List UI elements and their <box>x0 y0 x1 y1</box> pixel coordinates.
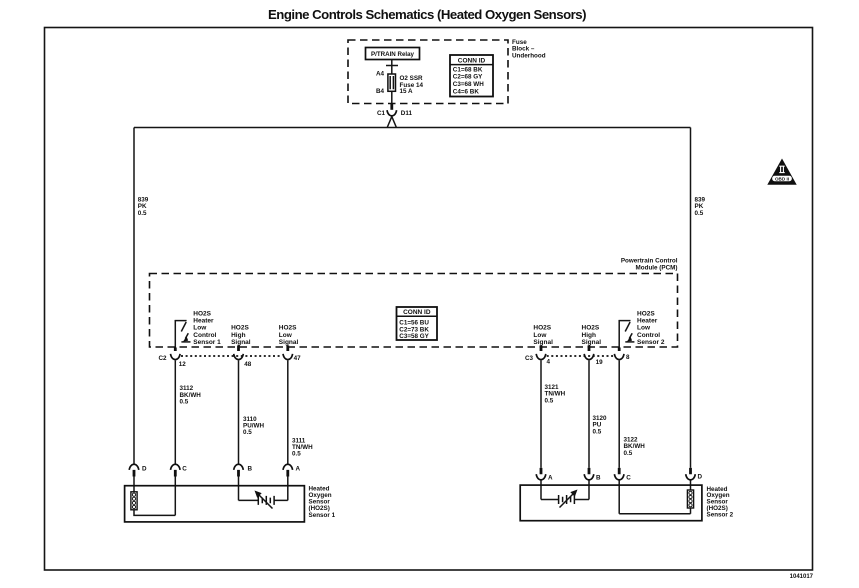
svg-text:12: 12 <box>179 361 187 368</box>
svg-text:Control: Control <box>637 332 660 339</box>
svg-text:0.5: 0.5 <box>624 450 633 457</box>
svg-text:B4: B4 <box>376 88 385 95</box>
svg-text:Powertrain Control: Powertrain Control <box>621 258 678 265</box>
svg-text:A: A <box>548 474 553 481</box>
svg-text:D: D <box>698 474 703 481</box>
svg-text:HO2S: HO2S <box>193 311 211 318</box>
svg-text:C2=68 GY: C2=68 GY <box>453 74 483 81</box>
svg-text:P/TRAIN Relay: P/TRAIN Relay <box>371 51 415 58</box>
svg-text:Heater: Heater <box>193 318 214 325</box>
svg-text:C3: C3 <box>525 355 534 362</box>
svg-text:HO2S: HO2S <box>533 325 551 332</box>
svg-text:Sensor 1: Sensor 1 <box>193 339 221 346</box>
svg-text:48: 48 <box>244 361 252 368</box>
svg-text:CONN ID: CONN ID <box>458 58 486 65</box>
svg-text:Underhood: Underhood <box>512 52 546 59</box>
svg-text:Sensor 1: Sensor 1 <box>309 512 336 519</box>
svg-text:C3=58 GY: C3=58 GY <box>399 333 429 340</box>
svg-text:4: 4 <box>547 358 551 365</box>
svg-text:Signal: Signal <box>582 339 602 346</box>
svg-text:A4: A4 <box>376 70 385 77</box>
svg-text:1041017: 1041017 <box>790 574 814 580</box>
svg-text:OBD II: OBD II <box>775 176 789 181</box>
svg-text:D: D <box>142 465 147 472</box>
svg-text:0.5: 0.5 <box>545 397 554 404</box>
svg-text:C4=6 BK: C4=6 BK <box>453 88 480 95</box>
svg-text:15 A: 15 A <box>400 88 414 95</box>
svg-text:A: A <box>296 465 301 472</box>
svg-text:Low: Low <box>193 325 207 332</box>
svg-text:B: B <box>248 465 253 472</box>
svg-text:C2: C2 <box>158 355 167 362</box>
svg-text:C: C <box>626 474 631 481</box>
svg-text:0.5: 0.5 <box>593 428 602 435</box>
svg-text:C1: C1 <box>377 110 386 117</box>
svg-text:B: B <box>596 474 601 481</box>
svg-text:Signal: Signal <box>279 339 299 346</box>
svg-text:47: 47 <box>294 355 302 362</box>
svg-text:Low: Low <box>637 325 651 332</box>
svg-text:D11: D11 <box>401 110 413 117</box>
svg-text:High: High <box>231 332 245 339</box>
svg-text:HO2S: HO2S <box>637 311 655 318</box>
svg-text:High: High <box>582 332 596 339</box>
svg-text:0.5: 0.5 <box>695 210 704 217</box>
svg-text:0.5: 0.5 <box>138 210 147 217</box>
svg-text:8: 8 <box>626 354 630 361</box>
svg-text:Sensor 2: Sensor 2 <box>707 512 734 519</box>
svg-text:Signal: Signal <box>533 339 553 346</box>
svg-text:Low: Low <box>533 332 547 339</box>
svg-text:Control: Control <box>193 332 216 339</box>
svg-text:Engine Controls Schematics (He: Engine Controls Schematics (Heated Oxyge… <box>268 7 586 22</box>
svg-text:0.5: 0.5 <box>292 451 301 458</box>
svg-text:C1=68 BK: C1=68 BK <box>453 66 483 73</box>
svg-text:CONN ID: CONN ID <box>403 309 431 316</box>
svg-text:0.5: 0.5 <box>243 429 252 436</box>
svg-text:(HO2S): (HO2S) <box>309 505 330 512</box>
svg-text:0.5: 0.5 <box>180 399 189 406</box>
svg-text:C: C <box>182 465 187 472</box>
svg-text:Heater: Heater <box>637 318 658 325</box>
svg-text:Low: Low <box>279 332 293 339</box>
svg-text:Sensor 2: Sensor 2 <box>637 339 665 346</box>
svg-text:HO2S: HO2S <box>279 325 297 332</box>
svg-text:HO2S: HO2S <box>582 325 600 332</box>
svg-text:Module (PCM): Module (PCM) <box>636 265 678 272</box>
svg-text:C3=68 WH: C3=68 WH <box>453 81 484 88</box>
svg-text:HO2S: HO2S <box>231 325 249 332</box>
svg-text:19: 19 <box>596 359 604 366</box>
svg-text:Signal: Signal <box>231 339 251 346</box>
